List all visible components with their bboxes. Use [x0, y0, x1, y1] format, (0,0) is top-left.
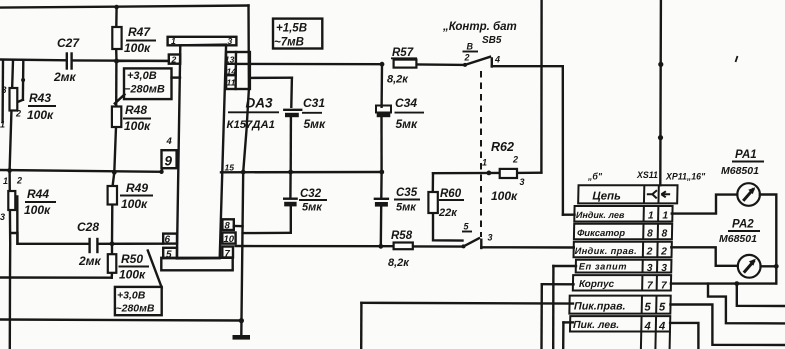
svg-text:C32: C32 [300, 188, 322, 200]
svg-text:+3,0В: +3,0В [127, 70, 157, 82]
svg-text:Корпус: Корпус [579, 279, 615, 290]
svg-text:SB5: SB5 [482, 35, 502, 46]
svg-text:В: В [467, 42, 474, 52]
svg-text:4: 4 [494, 55, 500, 65]
svg-text:2: 2 [646, 247, 653, 258]
svg-text:3: 3 [488, 233, 493, 243]
svg-text:C31: C31 [303, 96, 325, 110]
svg-text:R57: R57 [392, 47, 414, 59]
svg-text:5мк: 5мк [302, 202, 323, 214]
svg-text:C35: C35 [396, 187, 418, 199]
svg-text:13: 13 [225, 55, 235, 65]
svg-text:R43: R43 [29, 91, 51, 105]
svg-text:Пик.прав.: Пик.прав. [574, 300, 626, 312]
svg-text:R49: R49 [126, 181, 148, 195]
svg-text:1: 1 [0, 120, 5, 130]
svg-text:100к: 100к [124, 119, 151, 133]
svg-text:8,2к: 8,2к [388, 257, 410, 269]
svg-text:1: 1 [662, 211, 668, 222]
svg-text:C34: C34 [395, 96, 417, 110]
svg-text:5мк: 5мк [396, 202, 417, 214]
svg-text:М68501: М68501 [721, 165, 759, 177]
svg-text:22к: 22к [438, 207, 458, 219]
svg-text:1: 1 [3, 176, 8, 186]
svg-text:100к: 100к [119, 268, 146, 282]
svg-text:2мк: 2мк [78, 254, 102, 268]
svg-text:ХР11„16": ХР11„16" [665, 172, 706, 182]
svg-text:2: 2 [512, 155, 518, 165]
svg-text:~7мВ: ~7мВ [274, 37, 304, 49]
svg-text:100к: 100к [121, 197, 148, 211]
svg-text:−280мВ: −280мВ [124, 84, 165, 96]
svg-text:7: 7 [225, 249, 231, 260]
svg-text:8: 8 [225, 221, 231, 232]
svg-text:2: 2 [171, 55, 177, 65]
svg-text:РА1: РА1 [735, 149, 757, 161]
svg-text:8,2к: 8,2к [387, 74, 409, 86]
svg-text:9: 9 [165, 154, 173, 169]
svg-text:3: 3 [2, 85, 7, 95]
svg-text:4: 4 [166, 136, 173, 147]
svg-text:Фиксатор: Фиксатор [577, 227, 625, 238]
svg-text:5мк: 5мк [396, 117, 419, 131]
svg-text:Индик. лев: Индик. лев [576, 210, 625, 220]
svg-text:3: 3 [661, 263, 667, 274]
svg-text:2мк: 2мк [53, 70, 77, 84]
svg-text:100к: 100к [27, 108, 54, 122]
svg-text:100к: 100к [124, 41, 151, 55]
svg-text:Пик. лев.: Пик. лев. [573, 320, 619, 331]
svg-text:R44: R44 [27, 187, 49, 201]
svg-text:1: 1 [648, 211, 654, 222]
svg-text:R62: R62 [491, 140, 514, 154]
svg-text:6: 6 [165, 235, 171, 246]
svg-text:4: 4 [643, 321, 650, 333]
svg-text:4: 4 [658, 321, 665, 333]
svg-text:3: 3 [520, 177, 525, 187]
svg-text:8: 8 [661, 229, 667, 240]
svg-text:100к: 100к [491, 189, 518, 203]
svg-text:R50: R50 [121, 252, 143, 266]
svg-text:100к: 100к [24, 203, 51, 217]
svg-text:2: 2 [464, 53, 470, 63]
svg-text:2: 2 [660, 247, 667, 258]
svg-text:DA3: DA3 [246, 96, 273, 111]
svg-text:М68501: М68501 [719, 233, 757, 245]
svg-text:5: 5 [166, 250, 172, 261]
svg-text:8: 8 [647, 229, 653, 240]
svg-text:14: 14 [227, 67, 237, 77]
svg-text:10: 10 [224, 234, 235, 245]
svg-text:+3,0В: +3,0В [117, 290, 146, 302]
svg-text:11: 11 [227, 78, 236, 88]
svg-text:Еп запит: Еп запит [579, 262, 628, 272]
svg-text:~280мВ: ~280мВ [116, 303, 155, 315]
svg-text:R58: R58 [391, 230, 413, 242]
svg-text:15: 15 [225, 163, 235, 173]
svg-text:R60: R60 [440, 188, 462, 200]
svg-text:3: 3 [0, 212, 5, 222]
svg-text:R48: R48 [125, 103, 147, 117]
svg-text:„Контр. бат: „Контр. бат [442, 21, 517, 33]
svg-text:Цепь: Цепь [592, 191, 621, 203]
svg-text:1: 1 [171, 36, 176, 46]
svg-text:5: 5 [644, 302, 651, 314]
svg-text:Индик. прав.: Индик. прав. [575, 246, 638, 256]
svg-text:2: 2 [15, 109, 21, 119]
svg-text:+1,5В: +1,5В [276, 23, 307, 35]
svg-text:R47: R47 [128, 25, 151, 39]
svg-text:„б": „б" [587, 172, 603, 182]
svg-text:2: 2 [16, 176, 22, 186]
svg-text:C28: C28 [77, 220, 99, 234]
svg-text:3: 3 [647, 263, 653, 274]
svg-text:3: 3 [228, 36, 233, 46]
svg-text:5мк: 5мк [304, 117, 327, 131]
svg-text:К157ДА1: К157ДА1 [227, 119, 275, 131]
svg-text:1: 1 [482, 158, 487, 168]
svg-text:5: 5 [659, 302, 666, 314]
svg-text:C27: C27 [57, 36, 80, 50]
svg-text:XS11: XS11 [636, 170, 658, 180]
svg-text:РА2: РА2 [732, 219, 754, 231]
